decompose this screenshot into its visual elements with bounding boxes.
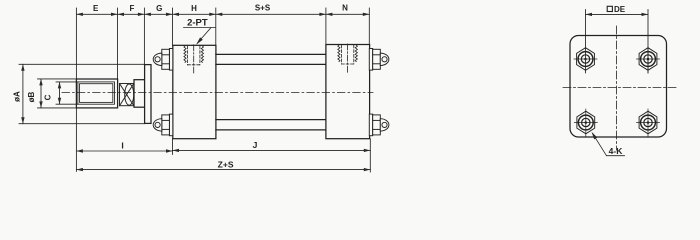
2-PT leader xyxy=(184,28,216,44)
end nut TR xyxy=(639,48,657,71)
nut crosshairs xyxy=(574,47,660,137)
svg-text:øB: øB xyxy=(27,91,36,102)
dim Z+S xyxy=(76,169,370,171)
svg-text:F: F xyxy=(130,4,135,13)
dim C xyxy=(56,82,78,104)
end view h centerline xyxy=(563,87,677,89)
svg-text:E: E xyxy=(93,4,99,13)
thread pocket outer xyxy=(78,82,115,104)
rear port 2-PT xyxy=(338,44,358,73)
front head block xyxy=(173,45,216,138)
tie rod top xyxy=(216,53,326,55)
svg-text:J: J xyxy=(253,140,258,150)
rear head block xyxy=(326,45,370,139)
svg-text:G: G xyxy=(156,4,162,13)
dim G xyxy=(144,13,172,15)
svg-text:C: C xyxy=(44,94,53,100)
tie rod nut front top xyxy=(153,49,173,71)
end view plate xyxy=(570,36,667,138)
dim phiA xyxy=(19,64,145,123)
gland plate xyxy=(145,65,151,124)
dim N xyxy=(326,13,369,15)
end nut BR xyxy=(639,111,657,134)
end nut TL xyxy=(577,48,595,71)
centerline main view xyxy=(62,91,373,93)
dim H xyxy=(173,13,216,15)
extension lines top dims xyxy=(76,8,370,172)
svg-text:N: N xyxy=(342,4,348,13)
rod end body xyxy=(76,79,117,108)
end view v centerline xyxy=(616,26,618,150)
dim F xyxy=(118,13,145,15)
svg-text:4-K: 4-K xyxy=(609,146,624,156)
tie rod nut rear top xyxy=(369,49,389,71)
svg-text:Z+S: Z+S xyxy=(218,159,234,169)
dim S+S xyxy=(216,13,326,15)
svg-text:I: I xyxy=(121,140,123,150)
front port 2-PT xyxy=(184,45,204,74)
dim E xyxy=(76,13,117,15)
thread pocket inner xyxy=(80,84,113,103)
svg-text:øA: øA xyxy=(13,91,22,102)
rod eye X-box xyxy=(120,84,134,106)
tie rod bottom xyxy=(216,119,326,121)
4-K leader xyxy=(593,134,607,156)
rod boss xyxy=(134,80,145,108)
end nut BL xyxy=(577,111,595,134)
tie rod nut front bottom xyxy=(153,114,173,136)
dim DE xyxy=(586,10,649,74)
dim I xyxy=(76,150,172,152)
dim J xyxy=(173,149,371,151)
tie rod nut rear bottom xyxy=(369,114,389,136)
svg-text:DE: DE xyxy=(614,5,626,14)
svg-text:2-PT: 2-PT xyxy=(187,18,208,29)
label DE square xyxy=(607,6,612,11)
svg-text:H: H xyxy=(191,4,197,13)
svg-text:S+S: S+S xyxy=(255,4,271,13)
dim phiB xyxy=(38,79,77,108)
